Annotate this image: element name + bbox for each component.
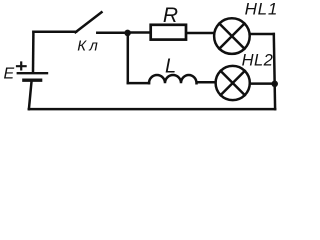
svg-text:HL2: HL2 — [242, 52, 274, 70]
wire switch to node — [97, 31, 127, 34]
switch Кл blade — [76, 12, 102, 32]
lamp HL1 — [214, 18, 250, 54]
wire top-left horizontal — [34, 31, 77, 34]
wire left vertical (battery bottom) — [29, 82, 32, 110]
node junction right — [271, 81, 278, 88]
inductor L — [149, 75, 197, 83]
wire inductor to lamp HL2 — [197, 81, 215, 84]
wire lamp HL2 to right node — [250, 82, 275, 85]
node junction left — [124, 30, 131, 37]
svg-text:E: E — [4, 66, 15, 83]
wire node to resistor — [128, 31, 150, 34]
wire bottom rail — [29, 108, 275, 111]
wire branch to inductor — [128, 82, 149, 85]
wire lamp HL1 to right rail — [250, 33, 274, 36]
svg-text:L: L — [165, 56, 176, 78]
wire resistor to lamp HL1 — [187, 32, 214, 35]
wire branch vertical from node — [127, 33, 130, 84]
battery E negative plate — [22, 79, 42, 82]
battery E positive plate — [17, 72, 49, 74]
lamp HL2 — [216, 66, 250, 100]
svg-text:R: R — [163, 4, 178, 27]
svg-text:Кл: Кл — [77, 38, 101, 55]
svg-text:HL1: HL1 — [245, 0, 279, 18]
wire right vertical rail — [274, 34, 275, 109]
battery polarity plus sign — [16, 61, 27, 70]
resistor R — [151, 25, 186, 40]
wire left vertical (battery top) — [32, 32, 35, 73]
